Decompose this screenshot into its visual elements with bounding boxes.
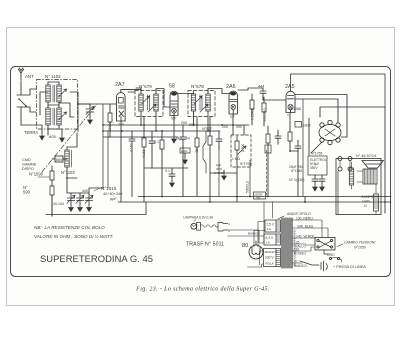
svg-text:N° 1103: N° 1103 (45, 74, 61, 79)
wire: left chain to chassis bus (51, 195, 53, 216)
ground under 58 cathode (172, 116, 177, 144)
svg-text:AVANTI SPOLO: AVANTI SPOLO (287, 212, 311, 216)
rectifier filament wires (254, 202, 264, 247)
svg-text:4-150: 4-150 (142, 149, 146, 158)
ground (detector cap) (222, 170, 227, 180)
IF transformer 2 N.678 dashed box (188, 91, 215, 117)
svg-text:58: 58 (169, 84, 175, 90)
wire: 2A7 cathode drop (120, 121, 122, 137)
volume potentiometer dashed box (231, 135, 251, 167)
svg-text:140. VERDE: 140. VERDE (296, 235, 315, 239)
svg-text:N°977: N°977 (202, 127, 212, 131)
label N.1016 gang (94, 186, 122, 201)
antenna coil unit dashed box (37, 80, 78, 130)
IF1 core lines (148, 95, 150, 110)
svg-text:LAMPADA 6,3V 0,3A: LAMPADA 6,3V 0,3A (183, 216, 214, 220)
wires to padders (67, 178, 103, 193)
svg-text:0: 0 (295, 260, 297, 264)
svg-text:N° 46.57/14: N° 46.57/14 (356, 154, 376, 158)
resistor (band-switch chain upper) (38, 166, 54, 185)
wire: IF1 sec to 58 grid (156, 89, 170, 108)
junction dots (66, 103, 386, 203)
wire: switch to coil box (25, 89, 36, 112)
resistor under IF1 (142, 117, 146, 160)
resistor (band-switch chain lower) (50, 185, 54, 216)
tuning gang dash-dot link (42, 103, 98, 172)
fuse ORO (327, 253, 342, 262)
scanned page border (7, 28, 395, 306)
capacitor 0.1 (IF1 bypass) (149, 131, 159, 149)
wire: 2A6 cathode region (233, 114, 244, 135)
power transformer core (282, 218, 292, 268)
svg-text:ORO: ORO (327, 253, 335, 257)
svg-text:N°1016: N°1016 (101, 186, 117, 191)
svg-text:1 MΩ: 1 MΩ (232, 157, 240, 161)
IF2 secondary coil (200, 91, 210, 131)
resistor under IF2 (195, 117, 199, 160)
filter caps to ground (312, 175, 318, 191)
resistor 50000 ohm (bleeder) (246, 160, 251, 196)
output transformer winding block (357, 169, 377, 184)
svg-text:230 V: 230 V (265, 256, 274, 260)
svg-text:ARANCIO: ARANCIO (265, 250, 279, 254)
antenna coil L2 secondary (53, 105, 61, 128)
svg-text:TERRA: TERRA (24, 130, 38, 135)
screen bus wire (103, 130, 220, 132)
ground (antenna unit) (40, 134, 45, 140)
IF1 primary coil (139, 91, 150, 125)
cap under 2A6 (216, 131, 222, 149)
svg-text:500: 500 (56, 157, 63, 162)
speaker plug socket (319, 120, 341, 144)
pot resistor (235, 141, 239, 150)
antenna symbol (18, 68, 24, 82)
svg-text:N°1650: N°1650 (354, 246, 366, 250)
svg-text:0.1: 0.1 (154, 140, 159, 144)
label 6uF 30% N.5700 (214, 163, 224, 175)
svg-text:4-150: 4-150 (130, 143, 134, 152)
svg-text:N°1103: N°1103 (61, 170, 75, 175)
svg-text:N°1700: N°1700 (240, 162, 251, 166)
label CAMBIO GAMME DISPO (22, 158, 37, 171)
resistor box 1500 4W (254, 192, 266, 200)
svg-text:30000: 30000 (108, 121, 112, 131)
AVC bent wire (203, 131, 206, 173)
svg-text:VIOLA: VIOLA (265, 262, 274, 266)
svg-text:GAMME: GAMME (22, 163, 37, 167)
svg-text:CAMBIO TENSIONI: CAMBIO TENSIONI (344, 241, 375, 245)
svg-text:N°1596: N°1596 (29, 172, 44, 177)
oscillator padder 500 (55, 156, 63, 162)
wire: socket rail (320, 107, 385, 213)
capacitor 4-150 (129, 131, 135, 152)
svg-text:0.1: 0.1 (165, 169, 170, 173)
label 10kΩ (295, 122, 302, 128)
resistor 500000 ohm (grid leak) (262, 97, 267, 126)
rectifier tube 80 (249, 241, 263, 259)
link wire y168 (144, 167, 188, 169)
cap 1q under 58 (180, 125, 190, 197)
svg-text:50000,Ω: 50000,Ω (246, 180, 250, 193)
resistor 30000 (2A7 bias) (108, 104, 112, 137)
svg-text:N°678: N°678 (191, 84, 204, 89)
wire: 2A7 plate to IF1 (128, 88, 141, 92)
voltage selector switch box (315, 238, 335, 251)
svg-text:200: 200 (181, 121, 187, 125)
svg-text:ANT: ANT (25, 74, 34, 79)
dashed linkage to mains switch (266, 150, 268, 195)
wire: gang cap line (120, 137, 122, 202)
primary winding 230V (248, 249, 281, 268)
svg-text:350V: 350V (310, 166, 318, 170)
cap 25uF 25V (289, 140, 304, 173)
cap under 2A5 grid (275, 130, 281, 144)
antenna coil L2 primary (46, 105, 50, 128)
svg-text:N° 1(230): N° 1(230) (289, 178, 304, 182)
coil box internal wires (40, 82, 74, 117)
svg-text:DISPO: DISPO (22, 167, 34, 171)
ground (RF tuning cap) (88, 118, 93, 124)
wires oscillator section (52, 133, 77, 178)
IF1 secondary coil (148, 91, 158, 131)
tube 58 (170, 91, 178, 120)
filament winding 2.5V (258, 220, 281, 232)
secondary tap 125 GIALLO (292, 241, 306, 249)
chassis bus (46, 202, 146, 215)
link wire y137 (103, 136, 178, 138)
wire: box output to grid line (70, 92, 116, 132)
wire: cathode network links (290, 151, 298, 197)
wires taps to selector (306, 220, 328, 251)
IF2 primary coil (191, 91, 202, 125)
coupling capacitor 444 (260, 88, 266, 97)
svg-text:500000Ω: 500000Ω (263, 108, 267, 122)
wire: grid line to tuning cap (78, 103, 90, 105)
svg-text:ROSSO: ROSSO (294, 252, 306, 256)
antenna coil L1 secondary (53, 82, 61, 105)
svg-text:1MΩ: 1MΩ (181, 149, 188, 153)
svg-text:µµF: µµF (110, 197, 117, 201)
filament winding 6.3V (228, 230, 281, 245)
tube 2A7 (117, 90, 142, 127)
diode load resistor chain under 2A6 (208, 117, 212, 160)
svg-text:200: 200 (222, 125, 228, 129)
output transformer + speaker box (336, 159, 381, 215)
field coil winding bar (374, 184, 379, 215)
svg-text:605: 605 (49, 134, 56, 139)
dial lamp (183, 216, 230, 234)
label AVANTI SPOLO (278, 212, 311, 219)
resistor 1M (detector load) (180, 148, 190, 164)
svg-text:40+40+340: 40+40+340 (103, 192, 122, 196)
svg-text:2A7: 2A7 (115, 82, 125, 88)
svg-text:2A6: 2A6 (226, 84, 236, 90)
variable caps (oscillator padders) row (53, 178, 103, 212)
svg-text:X.F: X.F (230, 115, 235, 119)
svg-text:CMD: CMD (22, 158, 31, 162)
wire: 2A6 plate to coupling cap (238, 88, 263, 90)
secondary tap 0 BIANCO (292, 260, 307, 269)
electrolytic box 8+8 (308, 156, 327, 175)
label CAMBIO TENSIONI N.1650 (337, 241, 375, 250)
oscillator coil N.1103 (63, 147, 72, 171)
resistor 10000 (2A5 grid) (265, 126, 271, 160)
B+ bus lower (118, 201, 391, 203)
svg-text:590: 590 (236, 125, 242, 129)
B+ bus upper (138, 196, 391, 198)
svg-text:590: 590 (23, 190, 31, 195)
tuning capacitor (RF) (86, 104, 94, 118)
padder cap 2 (76, 193, 84, 206)
svg-text:440: 440 (82, 189, 88, 193)
label CAMPO 1400 (361, 195, 374, 208)
svg-text:2 A: 2 A (267, 227, 271, 231)
svg-text:1q: 1q (186, 136, 190, 140)
bus feeds to transformer (272, 202, 274, 218)
wire: vertical at 305 (304, 197, 306, 203)
oscillator section verticals (103, 104, 108, 188)
svg-text:TRASF N° 5011: TRASF N° 5011 (186, 242, 224, 248)
wire: 58 plate to IF2 (176, 93, 193, 96)
IF transformer 1 N.679 dashed box (135, 91, 163, 117)
wire: coil common to ground (48, 128, 62, 136)
wave change switch lines (17, 82, 27, 125)
resistor under 58 (160, 131, 164, 160)
switch contact dots (18, 98, 27, 107)
svg-text:40-104: 40-104 (53, 202, 64, 206)
schematic frame (11, 67, 391, 277)
wire selector to fuse (324, 250, 329, 254)
wire: 2A5 top cap to B+ rail (291, 74, 386, 107)
trimmer arrows on coils (59, 89, 67, 97)
padder cap 3 (85, 193, 93, 206)
grounds under padders (69, 206, 74, 212)
tube 2A5 (286, 91, 295, 117)
tube 2A6 (229, 91, 237, 119)
speaker cone (362, 161, 384, 169)
AVC bus wire (103, 124, 249, 126)
link wire y173 (210, 172, 237, 174)
svg-text:4Ω: 4Ω (195, 148, 199, 153)
secondary tap GRI BLEU (292, 225, 314, 229)
svg-text:4W: 4W (256, 196, 261, 200)
output transformer primary winding (349, 162, 353, 189)
antenna coil L1 primary (46, 82, 50, 105)
svg-text:N°1068: N°1068 (289, 107, 301, 111)
svg-text:1400: 1400 (362, 200, 370, 204)
padder cap 1 (67, 193, 75, 206)
wire: 2A5 plate to socket (295, 95, 347, 138)
svg-text:N°1768: N°1768 (291, 169, 302, 173)
svg-text:2A5: 2A5 (285, 84, 295, 90)
svg-text:BIANCO: BIANCO (294, 264, 307, 268)
svg-text:6,3 V: 6,3 V (266, 236, 274, 240)
secondary tap 110 ROSSO (292, 248, 306, 256)
svg-text:Fɪɡ. 23. - Lo schema elettrico: Fɪɡ. 23. - Lo schema elettrico della Sup… (135, 286, 270, 293)
wire: mid drops to buses (144, 160, 268, 202)
svg-text:200: 200 (189, 123, 195, 127)
svg-text:80: 80 (242, 243, 248, 249)
wire: coupling to 2A5 grid (263, 97, 286, 100)
wire: socket to electrolytic (309, 118, 322, 155)
svg-text:GRI. BLEU: GRI. BLEU (297, 225, 314, 229)
secondary tap 130 NERO (292, 217, 314, 221)
wire: screen feed to socket (296, 99, 339, 122)
ground (coil common) (60, 136, 65, 142)
wire: terra lead (21, 125, 42, 134)
secondary tap 140 VERDE (292, 235, 315, 239)
svg-text:1 A: 1 A (266, 241, 270, 245)
plug pins 1 2 (338, 157, 352, 172)
IF2 core lines (200, 95, 202, 110)
svg-text:130. NERO: 130. NERO (296, 217, 313, 221)
svg-text:+ PRESA DI LINEA: + PRESA DI LINEA (333, 265, 366, 269)
resistor 0.25 Mohm (2A6 load) (250, 94, 255, 125)
cathode resistor 2A5 (288, 113, 292, 152)
wire: IF2 sec to 2A6 (208, 89, 231, 94)
drop from 2A6 cap to bus (218, 149, 220, 196)
svg-text:10kΩ: 10kΩ (303, 124, 311, 128)
svg-text:CAMPO: CAMPO (361, 195, 374, 199)
svg-text:0.25MΩ: 0.25MΩ (251, 108, 255, 120)
wire: B+ vertical to output primary (302, 99, 304, 197)
svg-text:SUPERETERODINA G. 45: SUPERETERODINA G. 45 (40, 253, 153, 264)
svg-text:NB:- LA RESISTENZE COL BOLO: NB:- LA RESISTENZE COL BOLO (34, 225, 105, 230)
svg-text:2,5 V: 2,5 V (267, 223, 275, 227)
wire: speaker box left lead (337, 171, 339, 214)
svg-text:VALORE IN OHM , SONO DI ½ WATT: VALORE IN OHM , SONO DI ½ WATT. (34, 233, 114, 239)
cap 0.1 to ground (detector) (165, 168, 175, 187)
mains plug PRESA DI LINEA (300, 261, 366, 271)
svg-text:N°1765: N°1765 (311, 152, 322, 156)
